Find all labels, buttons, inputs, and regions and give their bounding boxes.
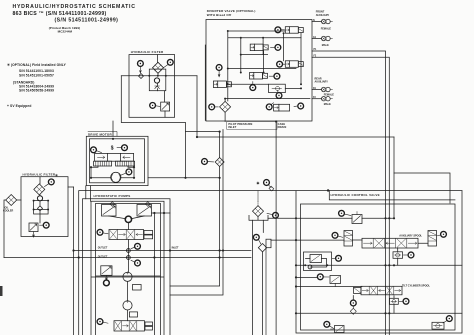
left edge blob [0, 286, 3, 296]
circle callout aux left [332, 232, 343, 238]
circle callout aux right [437, 231, 446, 237]
svg-text:FEMALE: FEMALE [321, 27, 332, 30]
diverter valve box [206, 20, 312, 122]
dot load check wire [295, 276, 297, 278]
pump shaft line [127, 281, 129, 300]
svg-text:TILT CYLINDER SPOOL: TILT CYLINDER SPOOL [402, 284, 430, 287]
pump R outlet wire [152, 212, 171, 214]
gauge circle suction [253, 234, 260, 243]
pump R outlet dots [153, 212, 220, 259]
port D1 wire [312, 89, 322, 91]
case drain line down [275, 122, 277, 335]
brake valve right port block [116, 161, 135, 166]
circle callout pressure reducing [332, 255, 341, 261]
circle callout SV5 [216, 65, 222, 77]
bypass check symbol [155, 86, 160, 89]
wire to load check circle [296, 276, 317, 278]
suction line right [262, 252, 264, 335]
cv bus y313 [296, 312, 462, 314]
circle callout cv relief [339, 210, 351, 216]
circle callout 1 [138, 61, 144, 73]
aux spool link lines [353, 240, 429, 243]
svg-text:(S/N 514511001-24999): (S/N 514511001-24999) [55, 18, 119, 24]
bottom right check [432, 322, 444, 329]
svg-text:INLET: INLET [172, 246, 179, 249]
drive motor inner box [90, 139, 145, 183]
charge relief valve [101, 266, 112, 280]
suction filter diamond [258, 239, 271, 252]
svg-text:HYDRAULIC/HYDROSTATIC SCHEMATI: HYDRAULIC/HYDROSTATIC SCHEMATIC [13, 4, 136, 10]
filter inner block [149, 69, 166, 91]
circle callout SV3 [277, 61, 285, 67]
rear auxiliary label [315, 77, 329, 83]
inlet junction dots [153, 249, 224, 258]
aux left solenoid [344, 231, 353, 247]
circle callout star [264, 180, 272, 188]
cv bus dots [295, 217, 395, 314]
cv bus y265 [296, 264, 462, 266]
circle callout servo 2 [97, 319, 108, 325]
diverter junction dots [224, 30, 302, 100]
outlet node circles [126, 249, 130, 260]
relief valve cv top [352, 212, 362, 224]
hf2 ladder dots [33, 200, 50, 211]
circle callout bleed right [294, 103, 304, 109]
wire to control valve (long top horizontal) [197, 136, 394, 138]
circle callout F2 [45, 179, 55, 187]
svg-text:COOLER: COOLER [3, 210, 14, 213]
junction dot pilot link [219, 120, 278, 132]
circle callout outlet 2 [131, 260, 140, 266]
circle callout pilot filter [209, 104, 219, 110]
servo2 side tabs [145, 322, 153, 330]
aux right solenoid [428, 231, 437, 247]
svg-text:S/N 514511001-05057: S/N 514511001-05057 [19, 74, 54, 78]
drive motor outer box [86, 136, 148, 185]
circle callout bottom right [443, 316, 452, 323]
outlet line upper [74, 250, 252, 252]
diverter outer parallel line [204, 45, 206, 120]
control valve feed line [79, 191, 462, 335]
port N wire [312, 21, 322, 23]
check valve on node line [139, 74, 144, 79]
pump link lines [109, 216, 145, 219]
svg-text:FEMALE: FEMALE [324, 94, 335, 97]
filter element F2 diamond [34, 184, 45, 195]
wire drive motor to node [148, 177, 220, 179]
right feed elbow [394, 173, 450, 203]
svg-text:AUXILIARY: AUXILIARY [315, 80, 329, 83]
diverter internal wire E [228, 33, 301, 84]
solenoid valve SV4 [250, 73, 268, 80]
circle callout check block [276, 91, 282, 99]
circle callout strainer [267, 212, 278, 218]
junction dot top [112, 138, 114, 140]
motor wires right [121, 166, 134, 178]
pressure reducer dots [304, 264, 328, 266]
circle callout RV2 [40, 222, 50, 228]
servo valve body [109, 230, 144, 240]
F2 wire to control valve [312, 57, 389, 335]
circle callout SV2 [271, 45, 281, 51]
circle callout relief [150, 103, 160, 109]
gauge circle F2 [37, 196, 42, 201]
svg-text:$: $ [111, 146, 114, 152]
control valve label box [329, 191, 455, 200]
front auxiliary label [316, 11, 330, 17]
svg-text:HYDRAULIC CONTROL VALVE: HYDRAULIC CONTROL VALVE [331, 193, 380, 197]
pumps inner box [86, 186, 164, 335]
svg-text:DRAIN: DRAIN [278, 125, 287, 129]
spool drop stubs [353, 248, 397, 313]
relief valve RV2 [29, 223, 38, 237]
circle callout 5 [121, 169, 132, 175]
charge pump P1 [123, 272, 132, 282]
svg-text:+ SV Equipped: + SV Equipped [7, 104, 31, 108]
coupler female front [322, 19, 333, 23]
circle callout charge relief [104, 280, 110, 286]
bleed off valve [274, 104, 290, 111]
circle callout outlet 1 [131, 243, 140, 249]
diverter internal wire D [283, 33, 285, 61]
node line through filter [121, 75, 197, 77]
filter stem F2 [34, 177, 49, 223]
tilt spool left stub [354, 287, 362, 293]
junction dots filter [148, 75, 167, 77]
aux port box P1 [133, 285, 142, 291]
servo side tabs [144, 231, 153, 239]
circle callout 3 [91, 147, 102, 153]
solenoid valve SV2 [250, 44, 268, 51]
port F3 wire [312, 98, 322, 100]
tilt spool body [361, 286, 402, 295]
solenoid valve SV5 [213, 81, 231, 88]
orifice plug [269, 186, 274, 191]
svg-text:S/N 514505058-24999: S/N 514505058-24999 [19, 89, 54, 93]
return line right [265, 248, 267, 335]
circle callout aux check [404, 252, 414, 258]
circle callout 2 [164, 59, 173, 67]
oil cooler diamond [6, 195, 17, 206]
relief valve RV1 [161, 102, 170, 117]
pressure reducing block [304, 252, 332, 271]
circle callout bottom left [324, 321, 334, 328]
circle callout servo [97, 229, 108, 235]
servo valve 2 body [114, 321, 145, 331]
wire box to drive motor [112, 121, 114, 136]
circle callout tilt check [399, 298, 409, 304]
junction dots motor [90, 166, 135, 179]
aux port box P2 [129, 312, 137, 317]
motor M1 [111, 172, 121, 182]
left bus wire 1 [73, 187, 75, 335]
junction dot node197 [184, 136, 220, 179]
brake valve left port block [94, 161, 112, 166]
drive motor label underline box [88, 132, 117, 137]
svg-text:HYDRAULIC FILTER: HYDRAULIC FILTER [23, 173, 56, 177]
load check small valve [330, 276, 341, 287]
filter element F1 (diamond) [153, 62, 164, 73]
mid drop line [393, 137, 395, 218]
svg-text:DRIVE MOTOR: DRIVE MOTOR [88, 132, 112, 136]
left bus stub [68, 186, 74, 188]
svg-text:863 BICS ™ (S/N 514411001-249: 863 BICS ™ (S/N 514411001-24999) [13, 11, 107, 17]
svg-text:AUXILIARY SPOOL: AUXILIARY SPOOL [399, 235, 422, 238]
variable pump left [102, 202, 117, 216]
feed junction dot [327, 189, 329, 191]
servo stem wires [127, 223, 129, 272]
port G1 wire [312, 38, 322, 40]
brake valve body [95, 153, 134, 161]
diverter internal wire B [240, 38, 242, 73]
control valve outer box [296, 191, 462, 333]
tilt check valve [390, 298, 399, 304]
svg-text:INLET: INLET [228, 125, 236, 129]
circle callout bleed left [266, 103, 273, 110]
svg-text:WITH Bleed Off: WITH Bleed Off [207, 13, 232, 17]
pressure gauge circle [154, 78, 159, 83]
svg-text:✳: ✳ [256, 180, 260, 185]
circle callout below SV5 [250, 82, 256, 91]
charge pump P2 [123, 300, 132, 310]
circle callout SV4 [269, 73, 280, 79]
svg-text:HYDRAULIC FILTER: HYDRAULIC FILTER [131, 50, 164, 54]
svg-text:HYDROSTATIC PUMPS: HYDROSTATIC PUMPS [94, 194, 131, 198]
servo 2 stem [127, 310, 129, 321]
case drain label [278, 122, 287, 129]
svg-text:OUTLET: OUTLET [98, 256, 108, 259]
cv bus y239 [271, 239, 344, 241]
coupler female rear [322, 87, 333, 91]
tilt anticav circle [350, 300, 356, 308]
center circle callout pumps [125, 216, 131, 222]
svg-text:MC2244M: MC2244M [58, 29, 73, 33]
bottom left valve [331, 326, 345, 333]
tilt anticav diamond [350, 308, 356, 314]
diverter internal wire F [226, 84, 301, 88]
oil cooler wires [4, 200, 21, 258]
strainer diamond [253, 191, 264, 217]
diverter internal wire G [225, 99, 310, 102]
inline filter on pilot line [215, 158, 224, 167]
relief line dots [384, 217, 395, 219]
P1 wire to control valve [312, 51, 386, 335]
svg-text:OUTLET: OUTLET [98, 246, 108, 249]
oil cooler label [3, 207, 14, 213]
outlet line lower [4, 257, 251, 259]
svg-text:✳ (OPTIONAL) Field Installed O: ✳ (OPTIONAL) Field Installed ONLY [7, 63, 67, 67]
strainer tank bracket [249, 215, 268, 220]
suction drop line [253, 218, 395, 335]
solenoid valve SV3 [285, 61, 303, 68]
pilot filter diamond [220, 101, 231, 112]
diverter internal wire A [228, 31, 301, 101]
check diamond F2 [38, 206, 43, 211]
diverter internal wire C [263, 51, 265, 73]
svg-text:MALE: MALE [324, 103, 331, 106]
check valve block [269, 84, 286, 92]
circle callout SV1 [275, 27, 285, 33]
circle callout inline filter [202, 159, 214, 165]
hydraulic filter (top) box [129, 55, 175, 118]
svg-text:MALE: MALE [322, 44, 329, 47]
coupler male rear [322, 97, 333, 101]
bus junction dots [72, 249, 79, 258]
aux check valve [393, 252, 403, 258]
circle callout 4 [117, 145, 127, 151]
pumps outer box [83, 199, 171, 335]
control valve inner box [301, 204, 456, 330]
variable pump right [137, 202, 152, 216]
aux spool body [362, 238, 418, 248]
pilot line down [170, 112, 225, 295]
hydraulic filter (left) box [21, 177, 68, 237]
coupler male front [322, 36, 333, 40]
motor wires left [91, 166, 111, 178]
circle callout load check [317, 274, 329, 280]
pilot pressure inlet label [227, 122, 277, 130]
enclosing return box (top filter) [121, 76, 197, 178]
filter vertical stem [158, 55, 165, 103]
internal return line [153, 213, 155, 335]
cv bus y286 [296, 286, 362, 288]
solenoid valve SV1 [285, 27, 303, 34]
svg-text:AUXILIARY: AUXILIARY [316, 14, 330, 17]
